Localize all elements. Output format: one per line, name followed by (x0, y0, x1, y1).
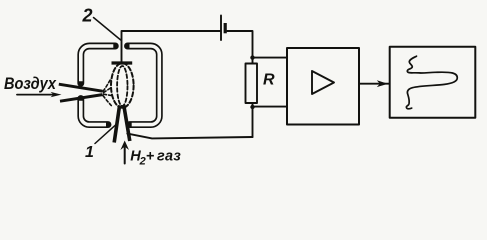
svg-text:+: + (146, 148, 155, 164)
flame fan dashes from air throat (103, 79, 111, 91)
burner jet right wall (124, 105, 130, 141)
svg-text:газ: газ (157, 148, 181, 164)
wire battery to top junction (227, 31, 252, 56)
op-amp box U1 (287, 48, 359, 125)
flame inner dashed ellipse (117, 66, 127, 106)
wire electrode to battery (top rail) (122, 31, 220, 62)
air flow arrow (17, 94, 54, 96)
wire resistor top lead (252, 58, 254, 64)
hydrogen flow arrow (124, 148, 126, 164)
burner jet left wall (1) (114, 105, 119, 142)
chamber wall segment bottom-left (81, 99, 108, 125)
air inlet tube upper wall (59, 84, 103, 91)
wire amplifier output arrow (359, 83, 390, 85)
svg-text:2: 2 (139, 156, 146, 166)
flame outer dashed ellipse (111, 63, 134, 108)
recorder box (390, 47, 476, 118)
battery long plate (220, 16, 222, 41)
op-amp triangle (312, 71, 334, 94)
node bottom junction dot (250, 105, 254, 109)
chamber wall segment right (top-right, right side, bottom-right) (128, 46, 160, 125)
battery short plate (224, 23, 227, 33)
recorder chromatogram trace (406, 56, 457, 109)
svg-text:R: R (263, 72, 275, 89)
wire bottom junction to amplifier input (253, 106, 288, 108)
wire resistor bottom lead (252, 103, 254, 107)
collector electrode bar (2) (112, 61, 133, 64)
leader line 1 (95, 125, 116, 144)
chamber wall segment top-left (81, 46, 116, 83)
resistor R (246, 64, 258, 104)
svg-text:1: 1 (85, 144, 94, 161)
leader line 2 (94, 18, 121, 41)
wire top junction to amplifier input (253, 57, 288, 59)
air inlet tube lower wall (60, 95, 103, 102)
svg-text:2: 2 (82, 6, 93, 26)
svg-text:Воздух: Воздух (4, 74, 57, 93)
node top junction dot (250, 55, 254, 59)
wire bottom junction down to bottom rail (252, 107, 254, 137)
wire bottom rail to burner jet (127, 134, 252, 139)
